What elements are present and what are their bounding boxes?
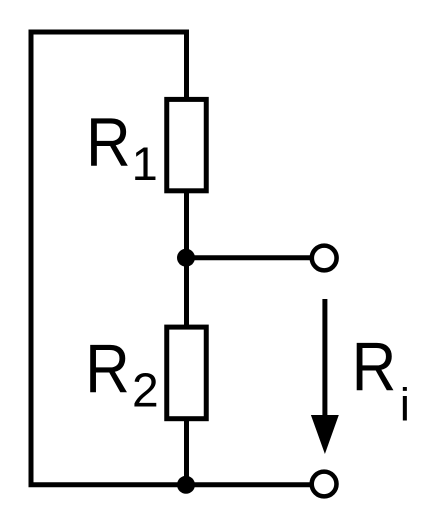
svg-text:R: R	[86, 103, 131, 180]
svg-text:R: R	[85, 330, 130, 407]
svg-text:1: 1	[132, 137, 158, 190]
svg-text:R: R	[352, 328, 397, 405]
svg-text:2: 2	[132, 364, 159, 417]
svg-text:i: i	[400, 378, 410, 430]
